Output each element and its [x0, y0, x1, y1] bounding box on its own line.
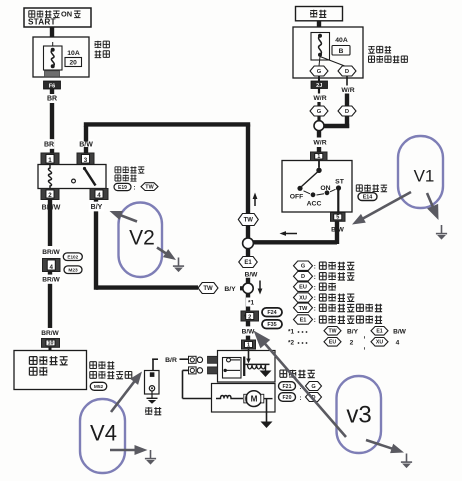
- wire B/W into starter pin 1: [246, 321, 250, 340]
- svg-text:,: ,: [364, 332, 366, 339]
- variant diamond G below fusible link: [310, 66, 328, 76]
- probe V1 arrow to ground: [427, 193, 435, 212]
- variant diamond D below fusible link: [338, 66, 356, 76]
- relay coil: [48, 165, 51, 189]
- svg-text:1: 1: [247, 342, 250, 348]
- relay switch arm: [83, 167, 86, 170]
- label: fuse box (CJK): [95, 41, 102, 48]
- svg-text:D: D: [345, 69, 349, 75]
- svg-text:B/W: B/W: [331, 227, 345, 234]
- power source box: ignition switch ON or START: [24, 8, 91, 27]
- svg-text:START: START: [28, 17, 56, 26]
- svg-text:E1: E1: [244, 260, 252, 266]
- wire BR down to relay pin 1: [50, 103, 54, 153]
- current direction arrow up: [254, 197, 256, 206]
- current direction arrow down at node B: [259, 281, 261, 291]
- fusible link letter B box: [332, 46, 350, 56]
- probe V2 ground symbol: [178, 258, 180, 266]
- connector 2J: [311, 81, 328, 89]
- svg-text:TW: TW: [244, 218, 254, 224]
- svg-text:B/R: B/R: [165, 357, 177, 364]
- probe V4 arrow to ground: [110, 449, 140, 452]
- variant diamond E1: [239, 257, 258, 268]
- starter motor ground: [266, 412, 268, 422]
- starter connector F20 : D: [279, 393, 296, 402]
- wire to connector E1: [246, 249, 250, 257]
- wire from pin 1 into solenoid: [248, 349, 250, 360]
- svg-text:BR/W: BR/W: [42, 277, 60, 284]
- svg-text:B/W: B/W: [245, 272, 259, 279]
- svg-text::: :: [314, 317, 316, 324]
- fuse box bottom terminal: [45, 71, 60, 77]
- svg-text:M52: M52: [94, 384, 104, 390]
- wire B/R down to starter motor: [183, 369, 189, 371]
- relay pin 4: [90, 189, 108, 200]
- svg-text:4: 4: [97, 192, 101, 199]
- wire label BR/W above connector 4: [42, 247, 60, 256]
- svg-text:BR/W: BR/W: [41, 330, 59, 337]
- svg-text:10A: 10A: [67, 50, 80, 57]
- wire BR below F6: [50, 89, 54, 94]
- ignition switch pin 1: [311, 152, 328, 161]
- battery box: [296, 7, 343, 21]
- svg-text:,: ,: [364, 343, 366, 350]
- svg-text:ON: ON: [320, 185, 330, 192]
- wire battery to fusible link box: [317, 21, 321, 27]
- svg-text:*1: *1: [248, 299, 254, 306]
- start cutoff output box (CJK): [14, 351, 87, 390]
- svg-text:5: 5: [336, 215, 339, 221]
- wire B/Y from relay pin 4 down: [94, 200, 98, 290]
- ignition switch common contact: [318, 161, 320, 168]
- variant diamond TW on B/Y wire: [198, 283, 218, 294]
- svg-text:OFF: OFF: [290, 193, 304, 200]
- legend variant diamonds and descriptions: [294, 261, 313, 270]
- anti-theft warning relay body E19: [38, 165, 106, 189]
- svg-text:F35: F35: [267, 322, 276, 328]
- svg-text:v3: v3: [346, 402, 371, 429]
- relay pin 2: [41, 189, 59, 200]
- svg-text:ON: ON: [61, 10, 72, 19]
- solenoid coil: [245, 363, 269, 365]
- ignition switch body E14: [282, 161, 352, 213]
- svg-text::: :: [314, 295, 316, 302]
- svg-text:F24: F24: [267, 310, 276, 316]
- svg-text::: :: [314, 305, 316, 312]
- note *1 on wire: [246, 297, 256, 306]
- starter connector F21 : G: [279, 382, 296, 391]
- wire B/W horizontal to the right: [84, 122, 250, 126]
- variant diamond TW on B/W wire: [238, 214, 258, 226]
- svg-text:BR: BR: [47, 96, 57, 103]
- svg-text:G: G: [317, 69, 322, 75]
- svg-text:3: 3: [84, 157, 88, 164]
- connector F6: [44, 81, 61, 89]
- connector ovals E102 M23: [63, 253, 82, 261]
- branch lines to variant diamonds: [319, 57, 320, 67]
- svg-text:20: 20: [70, 60, 78, 67]
- svg-text:F20: F20: [283, 395, 292, 401]
- svg-text:B/W: B/W: [242, 329, 256, 336]
- probe V2 arrow to ground: [157, 248, 170, 256]
- starter field coil: [216, 396, 243, 399]
- solenoid contact sub-box: [223, 358, 242, 379]
- wire B/R to smart entrance controller: [152, 359, 154, 371]
- svg-text:B/Y: B/Y: [347, 329, 359, 336]
- wire ST contact to pin 5: [337, 188, 339, 213]
- svg-text:E19: E19: [118, 185, 127, 191]
- wire label BR/W above connector 10: [41, 328, 59, 337]
- svg-text:E14: E14: [363, 195, 373, 201]
- svg-text::: :: [314, 263, 316, 270]
- svg-text:W/R: W/R: [313, 140, 326, 147]
- svg-text:B: B: [339, 48, 344, 55]
- svg-text:W/R: W/R: [313, 95, 326, 102]
- wire stub into node B: [240, 286, 243, 290]
- svg-text::: :: [133, 185, 135, 192]
- svg-text:B/W: B/W: [393, 329, 407, 336]
- wire stub into start cutoff box: [49, 347, 52, 350]
- wire below node B: [246, 294, 250, 312]
- svg-text:2: 2: [48, 192, 52, 199]
- probe mark V4 ellipse: [80, 399, 125, 473]
- right W/R wire through diamond D: [346, 76, 348, 85]
- svg-text:E1: E1: [300, 318, 307, 324]
- fuse box outline: [33, 37, 89, 77]
- svg-text:ST: ST: [335, 178, 345, 185]
- svg-text::: :: [314, 274, 316, 281]
- wire stubs at 2J: [318, 76, 320, 81]
- ignition switch wiper to OFF: [302, 172, 318, 187]
- probe V4 ground symbol: [150, 450, 152, 458]
- relay pin 3: [77, 153, 94, 165]
- contact ACC: [311, 192, 316, 197]
- starter B terminal connectors row 2: [189, 367, 197, 374]
- wire B/W node A to ignition switch pin 5: [253, 240, 337, 244]
- smart entrance controller label (CJK) M52: [90, 362, 97, 369]
- wire B/R to starter connectors: [180, 358, 189, 360]
- svg-text:V4: V4: [90, 421, 117, 446]
- probe V3 arrow to ground: [366, 440, 397, 450]
- svg-text:TW: TW: [328, 329, 336, 335]
- svg-text:ACC: ACC: [307, 200, 322, 207]
- svg-text:G: G: [301, 264, 305, 270]
- wire B/Y horizontal to node B: [96, 285, 198, 289]
- connector 4 block: [43, 259, 61, 272]
- svg-text:V1: V1: [414, 167, 435, 186]
- svg-text:*2: *2: [288, 340, 294, 347]
- svg-text:D: D: [301, 274, 305, 280]
- starter motor label (CJK): [280, 370, 287, 377]
- svg-text:F21: F21: [283, 384, 292, 390]
- contact ON: [325, 190, 330, 195]
- starter solenoid box: [218, 351, 276, 383]
- ground inside solenoid: [265, 364, 267, 370]
- starter motor M: [244, 394, 247, 403]
- relay name label (CJK) and connector E19 : TW: [115, 167, 121, 173]
- starter motor lower box: [212, 384, 276, 413]
- left W/R wire through diamond G: [317, 102, 320, 107]
- wire label BR/W below connector 4: [48, 272, 52, 331]
- connector *2 block: [241, 311, 259, 321]
- svg-text::: :: [314, 284, 316, 291]
- junction node B circle: [243, 283, 253, 293]
- svg-text:*1: *1: [288, 329, 294, 336]
- svg-text:EU: EU: [329, 340, 336, 346]
- fuse 10A element: [44, 46, 63, 70]
- svg-text:B/Y: B/Y: [224, 286, 236, 293]
- ignition switch pin 5: [331, 213, 346, 222]
- svg-text:F6: F6: [49, 83, 56, 89]
- battery label (CJK) at smart entry: [145, 407, 152, 415]
- probe mark V2 ellipse: [119, 203, 163, 278]
- wire B/W from relay pin 3 up: [84, 126, 88, 142]
- contact ST: [336, 185, 341, 190]
- svg-text:M: M: [251, 395, 258, 404]
- wire B/W vertical down to junction node A: [246, 124, 250, 238]
- starter motor pin 1: [242, 340, 256, 349]
- ground at smart entry battery feed: [151, 391, 153, 398]
- svg-text:M23: M23: [68, 267, 78, 273]
- probe V2 arrow to B/Y wire: [117, 214, 137, 222]
- svg-text:B/Y: B/Y: [91, 204, 103, 211]
- svg-text::: :: [299, 395, 301, 402]
- fusible link and fuse box outline: [293, 27, 363, 78]
- contact arc ticks: [304, 191, 311, 194]
- svg-text:E102: E102: [67, 254, 78, 259]
- probe V3 arrow to starter B/W: [261, 339, 346, 437]
- wire stub above node B: [246, 278, 250, 284]
- probe V1 arrow to B/W wire: [359, 192, 411, 221]
- svg-text:G: G: [311, 384, 315, 390]
- svg-text:XU: XU: [376, 340, 383, 346]
- fusible link element 40A: [311, 33, 330, 61]
- starter B terminal connectors row 1: [189, 356, 197, 363]
- svg-text:XU: XU: [299, 296, 307, 302]
- svg-text:1: 1: [317, 154, 320, 160]
- wire label B/W above relay pin 3: [78, 139, 93, 149]
- label: fusible link and fuse box (CJK): [368, 46, 374, 53]
- connector 10 block: [42, 339, 60, 348]
- ignition switch label (CJK) and connector E14: [356, 185, 362, 191]
- junction node A circle: [243, 238, 254, 249]
- svg-text:2: 2: [248, 314, 251, 320]
- svg-text:TW: TW: [299, 306, 308, 312]
- solenoid plunger bar: [243, 357, 245, 377]
- svg-text:V2: V2: [129, 227, 155, 250]
- fuse number 20 box: [65, 58, 82, 67]
- motor to ground wire: [264, 398, 273, 400]
- wire from ignition source to fuse box: [50, 27, 54, 37]
- relay contact pivot circle: [72, 179, 76, 183]
- current direction arrow left: [284, 233, 297, 235]
- probe V4 arrow to smart entry battery feed: [111, 378, 137, 412]
- relay pin 1: [41, 153, 59, 165]
- svg-text:2: 2: [350, 340, 354, 347]
- probe V1 ground symbol: [441, 225, 443, 233]
- wire W/R node C to ignition pin 1: [317, 131, 321, 138]
- junction node C circle: [314, 121, 324, 131]
- svg-text:BR/W: BR/W: [42, 249, 60, 256]
- svg-text:10: 10: [48, 341, 54, 347]
- probe mark V3 ellipse: [337, 376, 382, 453]
- svg-text:E1: E1: [376, 329, 382, 335]
- svg-text:W/R: W/R: [341, 87, 354, 94]
- svg-text:TW: TW: [145, 185, 154, 191]
- battery feed box at smart entry: [145, 371, 160, 395]
- svg-text:EU: EU: [299, 285, 307, 291]
- svg-text:TW: TW: [203, 286, 213, 292]
- right branch joins node C: [323, 124, 349, 128]
- contact OFF: [297, 186, 302, 191]
- svg-text:4: 4: [396, 340, 400, 347]
- svg-text:40A: 40A: [335, 37, 348, 44]
- svg-text:D: D: [345, 109, 349, 115]
- svg-text:4: 4: [50, 264, 54, 271]
- svg-text:1: 1: [48, 157, 52, 164]
- probe mark V1 ellipse: [398, 136, 443, 208]
- svg-text:G: G: [317, 109, 322, 115]
- svg-text:BR: BR: [44, 142, 54, 149]
- wire BR/W from relay pin 2 down: [48, 200, 52, 247]
- connector ovals F24 F35: [262, 308, 282, 317]
- probe V3 ground symbol: [406, 454, 408, 462]
- svg-text:2J: 2J: [316, 83, 322, 89]
